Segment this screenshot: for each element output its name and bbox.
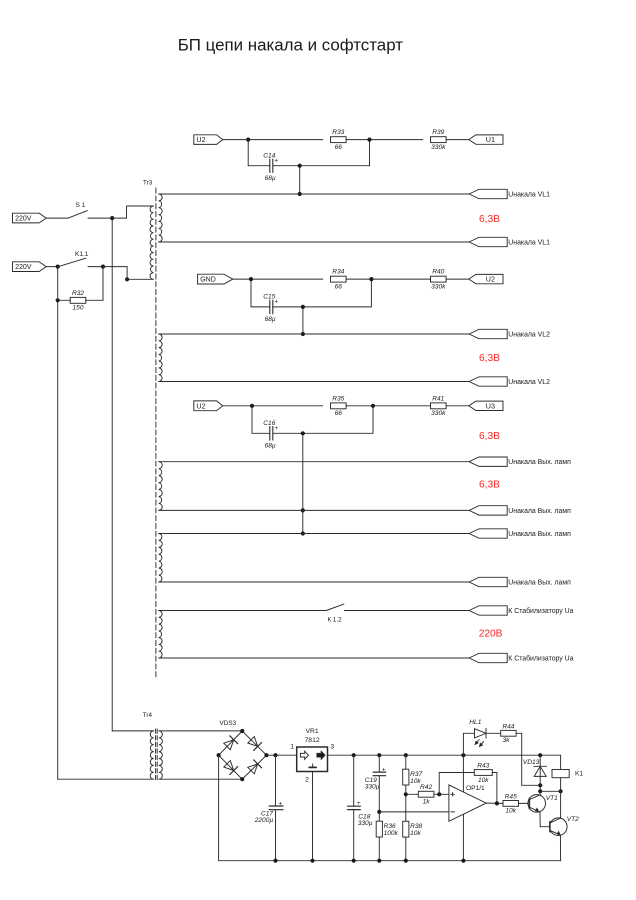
node — [538, 753, 542, 757]
svg-text:3: 3 — [330, 743, 334, 750]
label 6,3V — [479, 353, 500, 364]
svg-text:U2: U2 — [196, 401, 205, 410]
svg-text:Tr3: Tr3 — [143, 179, 153, 186]
wire — [86, 299, 103, 301]
regulator VR1 output arrow — [317, 751, 325, 759]
node — [404, 859, 408, 863]
wire — [346, 405, 430, 407]
wire — [486, 732, 501, 734]
wire — [275, 755, 277, 806]
tag U2 (row3 left) — [194, 401, 223, 411]
svg-text:68µ: 68µ — [265, 175, 276, 182]
svg-text:+: + — [382, 766, 386, 773]
node — [249, 277, 253, 281]
wire (VT2 emitter) — [559, 835, 561, 860]
tag 220V (lower) — [13, 262, 47, 272]
wire — [159, 730, 242, 732]
svg-text:7812: 7812 — [305, 737, 320, 744]
node — [437, 792, 441, 796]
wire — [102, 267, 104, 301]
svg-text:Uнакала VL2: Uнакала VL2 — [508, 331, 550, 338]
node — [217, 753, 221, 757]
svg-text:R36: R36 — [384, 823, 396, 830]
resistor R45 — [503, 793, 519, 814]
resistor R42 — [418, 784, 434, 806]
tag 220V (upper) — [13, 213, 47, 223]
wire — [405, 755, 407, 769]
node — [538, 789, 542, 793]
wire (VT1 collector) — [539, 791, 541, 795]
svg-text:+: + — [279, 800, 283, 807]
wire (bus from 220V to Tr4) — [57, 300, 59, 779]
wire — [159, 581, 469, 583]
wire — [405, 785, 407, 821]
capacitor C17 — [254, 800, 283, 824]
svg-text:Tr4: Tr4 — [143, 712, 153, 719]
node — [56, 265, 60, 269]
svg-text:VR1: VR1 — [305, 728, 318, 735]
transformer Tr3 secondary 3 — [159, 462, 163, 511]
transistor VT1 — [528, 795, 558, 813]
wire (+12V rail) — [328, 754, 561, 756]
resistor R38 — [403, 821, 423, 837]
svg-text:220В: 220В — [479, 629, 503, 640]
node Uнакала VL1 — [469, 189, 550, 198]
node — [369, 277, 373, 281]
wire — [223, 405, 323, 407]
svg-text:OP1/1: OP1/1 — [466, 785, 485, 792]
svg-text:HL1: HL1 — [469, 719, 481, 726]
wire — [439, 772, 474, 774]
diode VDS3 bottom-left — [224, 761, 238, 775]
wire — [492, 772, 497, 774]
node — [371, 404, 375, 408]
wire — [247, 140, 249, 166]
wire — [250, 279, 252, 307]
tag U1 (top right) — [469, 135, 503, 144]
wire — [159, 461, 469, 463]
node — [273, 753, 277, 757]
svg-text:6,3В: 6,3В — [479, 431, 500, 442]
node Uнакала Вых. ламп — [469, 577, 571, 586]
svg-text:6,3В: 6,3В — [479, 353, 500, 364]
svg-text:VDS3: VDS3 — [220, 720, 237, 727]
node Uнакала VL2 — [469, 377, 550, 386]
wire — [112, 217, 126, 219]
capacitor C16 — [263, 420, 278, 450]
node — [240, 729, 244, 733]
label 6,3V — [479, 214, 500, 225]
svg-text:220V: 220V — [15, 216, 32, 223]
node — [377, 810, 381, 814]
svg-text:330k: 330k — [431, 283, 446, 290]
regulator VR1 input arrow — [300, 751, 308, 759]
wire — [353, 810, 355, 861]
transformer Tr4 secondary — [159, 731, 162, 779]
svg-text:220V: 220V — [15, 264, 32, 271]
node — [352, 859, 356, 863]
wire — [369, 140, 371, 166]
wire (pin2) — [312, 772, 314, 861]
wire — [302, 307, 304, 334]
regulator VR1 gnd tab — [309, 764, 316, 768]
svg-text:К Стабилизатору Ua: К Стабилизатору Ua — [508, 607, 573, 615]
wire — [103, 266, 127, 268]
svg-text:R45: R45 — [505, 793, 517, 800]
node — [377, 753, 381, 757]
svg-text:6,3В: 6,3В — [479, 480, 500, 491]
transformer Tr3 label — [143, 179, 153, 186]
svg-text:Uнакала VL2: Uнакала VL2 — [508, 379, 550, 386]
wire — [46, 266, 58, 268]
wire — [159, 381, 469, 383]
wire — [88, 217, 112, 219]
wire — [378, 776, 380, 821]
svg-text:Uнакала Вых. ламп: Uнакала Вых. ламп — [508, 459, 571, 466]
wire — [127, 205, 154, 207]
svg-text:330k: 330k — [431, 144, 446, 151]
tag U2 (top left) — [194, 135, 223, 145]
wire — [438, 773, 440, 795]
wire — [560, 778, 562, 792]
svg-text:R37: R37 — [410, 771, 422, 778]
resistor R36 — [376, 821, 398, 837]
svg-text:R41: R41 — [432, 395, 444, 402]
svg-text:330k: 330k — [431, 410, 446, 417]
transformer Tr3 secondary 1 — [159, 194, 162, 242]
node — [250, 404, 254, 408]
resistor R40 — [431, 269, 447, 291]
node — [367, 138, 371, 142]
wire — [159, 657, 469, 659]
node — [240, 777, 244, 781]
wire (op-amp V+) — [462, 755, 464, 791]
svg-text:VD13: VD13 — [523, 759, 540, 766]
wire — [496, 773, 498, 804]
transistor VT2 — [550, 816, 580, 836]
wire — [522, 784, 541, 786]
svg-text:2: 2 — [305, 777, 309, 784]
svg-text:U2: U2 — [486, 275, 495, 284]
wire — [233, 278, 323, 280]
wire — [88, 266, 103, 268]
node Uнакала VL2 — [469, 329, 550, 338]
svg-text:330µ: 330µ — [365, 784, 380, 791]
resistor R39 — [431, 129, 447, 151]
wire — [346, 278, 430, 280]
wire — [112, 730, 154, 732]
svg-text:68µ: 68µ — [265, 443, 276, 450]
node — [559, 789, 563, 793]
node — [377, 859, 381, 863]
svg-text:Uнакала VL1: Uнакала VL1 — [508, 191, 550, 198]
node — [301, 431, 305, 435]
node — [125, 277, 129, 281]
svg-text:К Стабилизатору Ua: К Стабилизатору Ua — [508, 654, 573, 662]
wire — [159, 778, 242, 780]
title — [178, 35, 404, 54]
switch S1 — [68, 202, 87, 218]
wire — [299, 166, 301, 194]
node — [301, 531, 305, 535]
node — [404, 792, 408, 796]
svg-text:R43: R43 — [477, 763, 489, 770]
wire — [267, 754, 297, 756]
svg-text:Uнакала VL1: Uнакала VL1 — [508, 239, 550, 246]
svg-text:K1: K1 — [575, 770, 583, 777]
svg-text:10k: 10k — [505, 808, 516, 815]
svg-text:R44: R44 — [502, 723, 514, 730]
svg-text:GND: GND — [200, 277, 216, 284]
wire — [521, 733, 523, 785]
svg-text:66: 66 — [335, 283, 343, 290]
tag U2 (row2 right) — [469, 274, 503, 283]
svg-text:+: + — [274, 425, 278, 432]
tag U3 (row3 right) — [469, 401, 503, 410]
capacitor C15 — [263, 294, 278, 324]
svg-text:Uнакала Вых. ламп: Uнакала Вых. ламп — [508, 508, 571, 515]
wire — [126, 206, 128, 218]
wire — [378, 755, 380, 772]
node — [310, 859, 314, 863]
svg-text:68µ: 68µ — [265, 316, 276, 323]
relay coil K1 — [552, 770, 583, 778]
svg-text:U3: U3 — [486, 401, 495, 410]
wire — [159, 533, 469, 535]
wire — [560, 755, 562, 769]
node — [461, 753, 465, 757]
label 220V — [479, 629, 503, 640]
node — [404, 753, 408, 757]
svg-text:K1.1: K1.1 — [75, 251, 89, 258]
svg-text:U1: U1 — [486, 135, 495, 144]
svg-text:К 1.2: К 1.2 — [328, 617, 343, 624]
wire — [252, 432, 270, 434]
node — [495, 801, 499, 805]
node К Стабилизатору Ua — [469, 653, 574, 662]
wire — [273, 306, 372, 308]
wire — [446, 278, 468, 280]
LED HL1 — [463, 719, 486, 746]
transformer Tr4 label — [143, 712, 153, 719]
svg-text:6,3В: 6,3В — [479, 214, 500, 225]
node — [298, 164, 302, 168]
node Uнакала Вых. ламп — [469, 506, 571, 515]
wire (bus from S1 to Tr4) — [111, 218, 113, 731]
wire — [218, 755, 220, 861]
svg-text:R32: R32 — [72, 290, 84, 297]
wire (VT1 emitter) — [540, 812, 550, 827]
svg-text:R38: R38 — [410, 823, 422, 830]
svg-text:R39: R39 — [432, 129, 444, 136]
svg-text:10k: 10k — [478, 777, 489, 784]
node — [301, 305, 305, 309]
svg-text:+: + — [357, 800, 361, 807]
wire — [273, 432, 373, 434]
resistor R44 — [501, 723, 516, 744]
resistor R34 — [331, 269, 347, 291]
resistor R43 — [474, 763, 492, 784]
wire — [446, 139, 468, 141]
svg-text:1: 1 — [290, 743, 294, 750]
svg-text:66: 66 — [335, 144, 343, 151]
wire — [302, 433, 304, 533]
node — [110, 216, 114, 220]
svg-text:+: + — [274, 299, 278, 306]
svg-text:3k: 3k — [503, 737, 511, 744]
wire — [58, 778, 154, 780]
wire — [127, 278, 153, 280]
svg-text:2200µ: 2200µ — [254, 817, 274, 824]
wire — [446, 405, 468, 407]
label 6,3V — [479, 431, 500, 442]
transformer Tr3 primary — [150, 206, 153, 279]
wire — [406, 793, 419, 795]
wire — [58, 299, 70, 301]
wire — [273, 165, 370, 167]
transformer Tr3 secondary 4 — [159, 534, 163, 583]
wire — [126, 267, 128, 280]
wire — [159, 610, 327, 612]
wire — [434, 793, 449, 795]
wire (ground rail) — [219, 860, 561, 862]
op-amp OP1/1 — [449, 785, 486, 822]
svg-text:R35: R35 — [332, 395, 344, 402]
svg-text:S 1: S 1 — [76, 202, 86, 209]
wire — [462, 733, 464, 755]
diode VDS3 top-left — [224, 736, 238, 750]
tag GND — [198, 274, 233, 284]
wire (op-amp V-) — [462, 814, 464, 860]
wire — [372, 406, 374, 434]
wire — [540, 790, 560, 792]
transformer Tr4 core — [156, 729, 158, 781]
resistor R35 — [331, 395, 347, 417]
svg-text:Uнакала Вых. ламп: Uнакала Вых. ламп — [508, 579, 571, 586]
node — [101, 265, 105, 269]
node — [56, 298, 60, 302]
node — [461, 859, 465, 863]
wire — [46, 217, 68, 219]
wire — [378, 837, 380, 861]
svg-text:10k: 10k — [410, 830, 421, 837]
node — [538, 783, 542, 787]
transformer Tr4 primary — [150, 731, 153, 779]
svg-text:БП цепи накала и софтстарт: БП цепи накала и софтстарт — [178, 35, 404, 54]
svg-text:Uнакала Вых. ламп: Uнакала Вых. ламп — [508, 531, 571, 538]
bridge VDS3 outline — [219, 720, 267, 779]
node — [298, 192, 302, 196]
wire — [486, 802, 503, 804]
svg-text:+: + — [274, 158, 278, 165]
wire — [159, 241, 469, 243]
wire — [519, 802, 530, 804]
diode VDS3 bottom-right — [248, 760, 262, 774]
wire — [57, 267, 59, 301]
wire — [353, 755, 355, 806]
svg-text:R33: R33 — [332, 129, 344, 136]
capacitor C18 — [348, 800, 373, 827]
wire — [346, 139, 423, 141]
wire — [159, 333, 469, 335]
transformer Tr3 core — [155, 188, 157, 678]
node Uнакала VL1 — [469, 237, 550, 246]
wire — [251, 406, 253, 434]
svg-text:R42: R42 — [420, 784, 432, 791]
svg-text:100k: 100k — [384, 830, 399, 837]
wire — [370, 279, 372, 307]
svg-text:VT2: VT2 — [567, 816, 579, 823]
node — [301, 508, 305, 512]
node Uнакала Вых. ламп — [469, 529, 571, 538]
svg-text:150: 150 — [72, 305, 83, 312]
regulator VR1 labels — [290, 728, 334, 783]
node — [246, 138, 250, 142]
wire — [159, 193, 469, 195]
capacitor C14 — [263, 152, 278, 182]
resistor R33 — [331, 129, 347, 151]
resistor R32 — [70, 290, 86, 312]
relay contact K1.1 — [59, 251, 89, 266]
svg-text:66: 66 — [335, 410, 343, 417]
transformer Tr3 secondary 2 — [159, 334, 162, 382]
wire — [275, 810, 277, 861]
node Uнакала Вых. ламп — [469, 457, 571, 466]
node К Стабилизатору Ua — [469, 606, 574, 615]
diode VD13 — [523, 759, 547, 776]
wire (VT2 collector) — [560, 791, 562, 818]
capacitor C19 — [365, 766, 386, 790]
wire — [159, 509, 469, 511]
node — [273, 859, 277, 863]
wire — [379, 811, 449, 813]
resistor R37 — [403, 769, 423, 785]
regulator VR1 box — [297, 747, 328, 772]
wire — [516, 732, 522, 734]
wire — [251, 306, 270, 308]
wire — [248, 165, 270, 167]
wire — [344, 610, 469, 612]
resistor R41 — [431, 395, 447, 417]
svg-text:1k: 1k — [423, 799, 431, 806]
svg-text:VT1: VT1 — [546, 795, 558, 802]
node — [264, 753, 268, 757]
svg-text:R34: R34 — [332, 269, 344, 276]
node — [301, 332, 305, 336]
wire — [405, 837, 407, 861]
svg-text:330µ: 330µ — [358, 820, 373, 827]
transformer Tr3 secondary 5 — [159, 611, 162, 659]
svg-text:U2: U2 — [196, 135, 205, 144]
label 6,3V — [479, 480, 500, 491]
wire — [223, 139, 323, 141]
wire — [539, 755, 541, 791]
node — [352, 753, 356, 757]
relay contact K1.2 — [326, 604, 344, 624]
svg-text:R40: R40 — [432, 269, 444, 276]
diode VDS3 top-right — [248, 737, 262, 751]
